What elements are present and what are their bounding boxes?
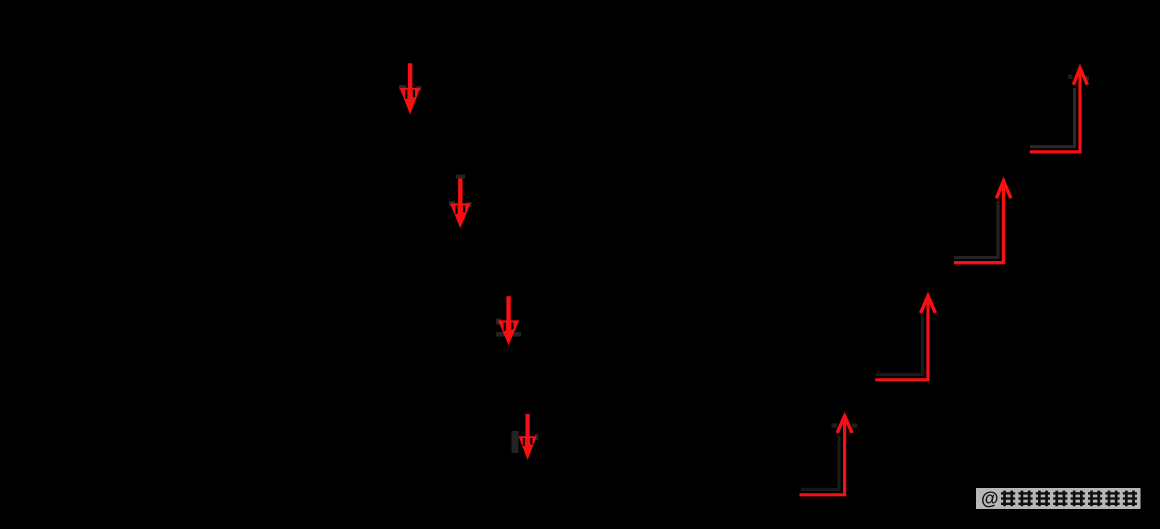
shadow marks under down arrow 3 <box>496 319 521 337</box>
red elbow arrow 4 <box>1030 68 1088 152</box>
red elbow arrow 2 <box>875 296 935 380</box>
shadow nubs under down arrow 1 <box>399 85 422 91</box>
gray shadow elbow 4 <box>1030 75 1089 147</box>
red down arrow 1 <box>400 63 421 114</box>
red down arrow 2 <box>450 179 471 229</box>
gray shadow elbow 1 <box>801 423 857 489</box>
red down arrow 4 <box>519 414 537 460</box>
gray shadow elbow 3 <box>954 201 998 258</box>
shadow marks under down arrow 4 <box>512 431 539 453</box>
shadow nubs under down arrow 2 <box>449 175 472 208</box>
red elbow arrow 1 <box>800 416 853 495</box>
gray shadow elbow 2 <box>876 316 923 375</box>
red elbow arrow 3 <box>954 181 1011 263</box>
watermark CJK glyph strokes <box>1001 491 1137 507</box>
watermark @ glyph <box>981 489 999 509</box>
watermark plate <box>976 488 1141 509</box>
red down arrow 3 <box>498 296 519 345</box>
svg-text:@: @ <box>981 489 999 509</box>
